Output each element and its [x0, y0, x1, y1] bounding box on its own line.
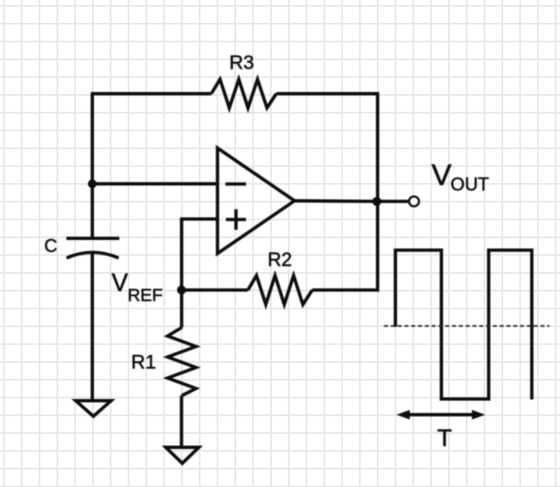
wire — [312, 201, 377, 290]
op-amp U1 — [218, 148, 295, 254]
resistor R3 — [211, 79, 276, 108]
resistor R1 — [168, 328, 196, 396]
dimension arrow T — [397, 410, 486, 420]
ground — [76, 401, 111, 417]
waveform: zero reference dashed line — [384, 325, 550, 327]
wire — [276, 94, 377, 202]
svg-text:V: V — [112, 270, 129, 297]
wire: op-amp output — [295, 199, 409, 203]
waveform: square wave — [395, 250, 531, 399]
ground — [166, 447, 199, 463]
wire — [92, 94, 211, 239]
svg-text:C: C — [44, 236, 57, 256]
svg-text:OUT: OUT — [451, 174, 490, 195]
svg-text:R2: R2 — [268, 250, 292, 271]
capacitor C — [44, 236, 119, 258]
svg-text:T: T — [437, 425, 452, 452]
wire — [91, 254, 94, 401]
node: output junction — [372, 197, 381, 206]
svg-text:R3: R3 — [229, 52, 254, 74]
svg-text:V: V — [432, 159, 452, 192]
wire — [180, 396, 183, 448]
wire — [182, 288, 248, 291]
wire — [92, 182, 217, 185]
resistor R2 — [248, 276, 312, 305]
node: inverting input junction — [88, 179, 97, 188]
wire — [182, 219, 218, 290]
svg-text:R1: R1 — [131, 351, 156, 373]
node: non-inverting input junction — [177, 286, 186, 295]
svg-text:REF: REF — [128, 285, 163, 305]
wire — [180, 290, 183, 328]
terminal: output — [409, 197, 419, 207]
